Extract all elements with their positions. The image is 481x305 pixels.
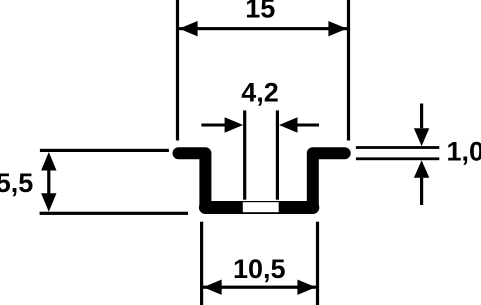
dimension 1,0: upper arrowhead — [414, 128, 429, 146]
dimension 5,5: top extension line — [40, 149, 169, 152]
dimension 15: right arrowhead — [328, 21, 347, 36]
dimension 5,5: bottom arrowhead — [41, 193, 56, 212]
dimension 1,0: upper arrow shaft — [420, 104, 423, 129]
dimension 1,0: upper surface line — [356, 146, 439, 149]
dimension 10,5: right extension line — [316, 222, 319, 305]
dimension 4,2: left extension line — [243, 110, 246, 199]
dimension 4,2: right arrowhead — [279, 117, 298, 132]
dimension 10,5: left arrowhead — [203, 280, 222, 295]
dimension 4,2: right arrow shaft — [294, 124, 319, 127]
dimension 4,2: left arrow shaft — [201, 124, 227, 127]
dimension 15: dimension line — [178, 27, 349, 30]
dimension 10,5: dimension line — [202, 286, 318, 289]
dimension 4,2: right extension line — [276, 110, 279, 199]
dimension 15: left extension line — [176, 0, 179, 141]
hat profile cross-section (thick outline) — [179, 153, 345, 207]
dimension 4,2: left arrowhead — [225, 117, 244, 132]
svg-text:10,5: 10,5 — [233, 254, 286, 284]
dimension 5,5: top arrowhead — [41, 152, 56, 171]
svg-text:15: 15 — [245, 0, 275, 24]
dimension 1,0: lower arrowhead — [414, 160, 429, 178]
dimension 1,0: lower arrow shaft — [420, 178, 423, 205]
dimension 5,5: arrow shaft — [47, 170, 50, 195]
dimension 10,5: left extension line — [200, 222, 203, 305]
dimension 1,0: lower surface line — [356, 157, 439, 160]
dimension 10,5: right arrowhead — [297, 280, 316, 295]
dimension 5,5: bottom extension line — [40, 212, 189, 215]
svg-text:1,0: 1,0 — [447, 136, 481, 166]
svg-text:5,5: 5,5 — [0, 168, 33, 198]
dimension 15: left arrowhead — [179, 21, 198, 36]
svg-text:4,2: 4,2 — [241, 78, 279, 108]
profile bottom web (slightly thicker) — [205, 201, 312, 214]
dimension 15: right extension line — [347, 0, 350, 141]
slot opening in bottom web — [243, 202, 279, 212]
